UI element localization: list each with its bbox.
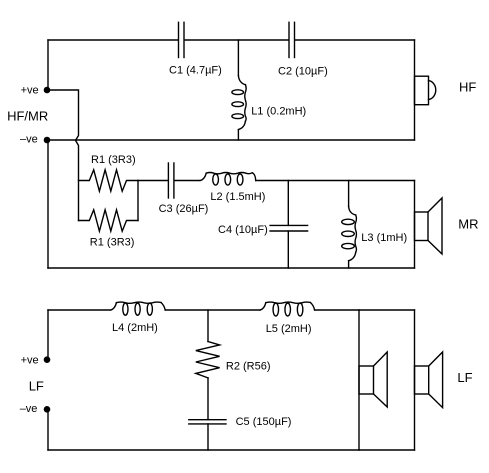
svg-text:L1 (0.2mH): L1 (0.2mH) <box>251 106 306 118</box>
svg-text:+ve: +ve <box>21 355 39 367</box>
wire: R1 right bar <box>137 181 139 221</box>
wire: L2 to MR right side <box>256 180 415 182</box>
wire: L3 bottom lead <box>348 261 350 268</box>
wire: L5 to right side <box>315 309 415 311</box>
wire: MR bottom rail <box>48 267 415 269</box>
svg-text:HF: HF <box>459 80 476 95</box>
wire: R2 to C5 <box>207 378 209 420</box>
svg-text:C4 (10µF): C4 (10µF) <box>218 224 268 236</box>
wire: top rail between C1 and C2 <box>185 39 289 41</box>
wire: MR right vertical <box>414 181 416 269</box>
svg-text:R2 (R56): R2 (R56) <box>226 360 271 372</box>
resistor R1 bottom <box>79 210 139 231</box>
wire: LF left vertical top <box>47 310 49 360</box>
svg-text:C2 (10µF): C2 (10µF) <box>278 66 328 78</box>
inductor L4 <box>111 302 166 315</box>
svg-text:HF/MR: HF/MR <box>7 109 48 124</box>
wire: HF left vertical (+ve up to top rail) <box>47 40 49 90</box>
resistor R1 top <box>79 170 139 191</box>
svg-text:L5 (2mH): L5 (2mH) <box>266 323 312 335</box>
wire: top rail C2 to right corner <box>295 39 414 41</box>
capacitor C5 <box>189 420 226 424</box>
wire: L1 bottom lead <box>237 130 239 140</box>
svg-text:R1 (3R3): R1 (3R3) <box>90 237 135 249</box>
wire: LF bottom rail <box>48 449 415 451</box>
wire: HF bottom rail <box>47 139 415 141</box>
speaker MR <box>415 198 443 254</box>
svg-text:L3 (1mH): L3 (1mH) <box>361 232 407 244</box>
node +ve terminal LF <box>44 356 51 363</box>
wire: C4 bottom lead <box>287 231 289 268</box>
svg-text:MR: MR <box>458 217 478 232</box>
inductor L2 <box>200 173 255 186</box>
speaker LF outer <box>415 352 443 408</box>
capacitor C3 <box>168 163 174 198</box>
speaker HF tweeter <box>415 76 436 105</box>
wire: LF left vertical bottom <box>47 409 49 450</box>
svg-text:LF: LF <box>29 378 44 393</box>
wire: R1 to C3 <box>138 180 168 182</box>
capacitor C1 <box>179 22 185 57</box>
svg-text:C3 (26µF): C3 (26µF) <box>159 203 209 215</box>
svg-text:–ve: –ve <box>20 134 38 146</box>
speaker LF inner <box>359 352 387 407</box>
wire: C5 bottom lead <box>207 424 209 450</box>
svg-text:R1 (3R3): R1 (3R3) <box>91 154 136 166</box>
svg-text:L2 (1.5mH): L2 (1.5mH) <box>210 191 265 203</box>
wire: LF inner vertical <box>358 310 360 450</box>
wire: L3 top lead <box>348 181 350 207</box>
svg-text:L4 (2mH): L4 (2mH) <box>112 322 158 334</box>
wire: HF top rail left segment <box>48 39 178 41</box>
wire: HF right vertical <box>414 40 416 140</box>
inductor L3 <box>342 207 357 261</box>
wire: LF top rail left segment <box>48 309 111 311</box>
wire: R2 top lead <box>207 310 209 342</box>
wire: LF right vertical <box>414 310 416 450</box>
wire: C4 top lead <box>287 181 289 226</box>
node +ve terminal HF/MR <box>44 87 51 94</box>
node -ve terminal LF <box>44 406 51 413</box>
wire: -ve feed down to MR bottom rail <box>47 140 49 268</box>
resistor R2 <box>196 342 220 378</box>
node -ve terminal HF/MR <box>44 137 51 144</box>
svg-text:LF: LF <box>457 370 472 385</box>
inductor L5 <box>260 302 315 316</box>
wire: C3 to L2 <box>175 180 200 182</box>
wire: +ve feed right then down with kink crossing <box>47 90 79 221</box>
svg-text:–ve: –ve <box>20 403 38 415</box>
capacitor C4 <box>270 225 308 231</box>
capacitor C2 <box>289 22 295 57</box>
inductor L1 <box>232 76 246 130</box>
svg-text:C5 (150µF): C5 (150µF) <box>236 416 292 428</box>
wire: L4 to L5 <box>165 309 260 311</box>
svg-text:C1 (4.7µF): C1 (4.7µF) <box>169 65 222 77</box>
wire: L1 top lead from junction <box>237 40 239 76</box>
svg-text:+ve: +ve <box>21 85 39 97</box>
